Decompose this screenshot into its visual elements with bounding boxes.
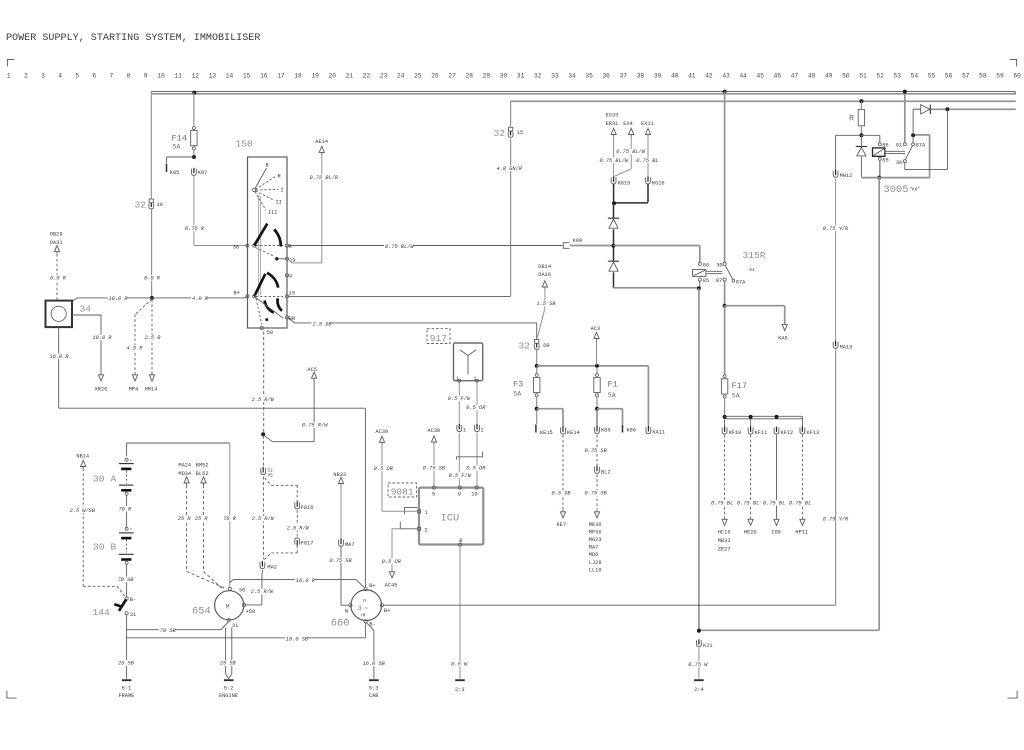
svg-text:86: 86 (703, 263, 709, 269)
svg-text:I: I (281, 188, 284, 194)
svg-text:AC3: AC3 (591, 326, 601, 332)
svg-text:2.5 R/W: 2.5 R/W (251, 589, 274, 595)
svg-text:2:4: 2:4 (694, 687, 704, 693)
svg-text:0.75 R: 0.75 R (185, 226, 205, 232)
svg-text:1.5 SB: 1.5 SB (537, 301, 557, 307)
svg-text:LL10: LL10 (589, 567, 602, 573)
svg-text:144: 144 (93, 607, 111, 618)
svg-text:KE7: KE7 (557, 522, 567, 528)
svg-text:315R: 315R (743, 250, 766, 261)
svg-text:4.8 R: 4.8 R (127, 346, 144, 352)
svg-text:48: 48 (808, 73, 816, 80)
svg-text:NB14: NB14 (76, 454, 89, 460)
svg-text:15: 15 (517, 130, 523, 136)
svg-text:AC38: AC38 (427, 428, 440, 434)
svg-text:20: 20 (329, 73, 337, 80)
svg-text:30: 30 (157, 202, 163, 208)
svg-text:AE14: AE14 (315, 139, 328, 145)
svg-text:F816: F816 (301, 505, 314, 511)
svg-text:ME36: ME36 (589, 522, 602, 528)
svg-text:6.0 R: 6.0 R (50, 276, 67, 282)
svg-text:MA7: MA7 (589, 545, 599, 551)
svg-text:ZE27: ZE27 (718, 547, 731, 553)
svg-text:K85: K85 (601, 428, 611, 434)
svg-text:16: 16 (260, 73, 268, 80)
svg-text:2: 2 (474, 377, 477, 382)
svg-text:16.0 SB: 16.0 SB (286, 636, 309, 642)
svg-text:2.5 SB: 2.5 SB (313, 321, 333, 327)
svg-text:36: 36 (602, 73, 610, 80)
svg-text:32: 32 (135, 200, 147, 211)
svg-text:KF12: KF12 (781, 430, 794, 436)
svg-text:0.75 BL: 0.75 BL (737, 501, 759, 507)
svg-text:10: 10 (471, 491, 477, 497)
svg-text:30: 30 (93, 542, 105, 553)
svg-text:0.75 SB: 0.75 SB (585, 448, 608, 454)
svg-text:2.5 R: 2.5 R (145, 335, 162, 341)
svg-text:MA24: MA24 (178, 463, 191, 469)
svg-text:MF36: MF36 (589, 529, 602, 535)
svg-text:21: 21 (346, 73, 354, 80)
svg-text:0.5 W: 0.5 W (451, 661, 468, 667)
svg-text:5A: 5A (513, 391, 521, 398)
svg-text:BM52: BM52 (196, 463, 209, 469)
svg-text:P: P (289, 274, 292, 280)
svg-text:R: R (849, 114, 854, 124)
svg-text:CAB: CAB (369, 693, 379, 699)
svg-text:87A: 87A (736, 279, 746, 285)
svg-text:XR20: XR20 (95, 387, 108, 393)
svg-text:KF10: KF10 (729, 430, 742, 436)
svg-text:NB33: NB33 (333, 472, 346, 478)
svg-text:HE20: HE20 (744, 530, 757, 536)
svg-text:5A: 5A (173, 144, 181, 151)
svg-text:31: 31 (130, 612, 136, 618)
svg-text:B+: B+ (369, 583, 375, 589)
svg-text:2: 2 (425, 528, 428, 534)
svg-text:39: 39 (654, 73, 662, 80)
svg-text:1: 1 (7, 73, 11, 80)
svg-text:51: 51 (859, 73, 867, 80)
svg-text:16.0 SB: 16.0 SB (363, 661, 386, 667)
svg-text:2: 2 (24, 73, 28, 80)
svg-text:0.75 W: 0.75 W (688, 662, 708, 668)
svg-text:12: 12 (192, 73, 200, 80)
svg-text:KA5: KA5 (778, 336, 788, 342)
svg-text:31: 31 (232, 623, 238, 629)
svg-text:15: 15 (243, 73, 251, 80)
svg-text:BL2: BL2 (601, 469, 611, 475)
svg-text:AC45: AC45 (385, 583, 398, 589)
svg-text:27: 27 (448, 73, 456, 80)
svg-text:6: 6 (92, 73, 96, 80)
svg-text:8: 8 (127, 73, 131, 80)
svg-text:+: + (130, 459, 133, 464)
svg-text:45: 45 (757, 73, 765, 80)
svg-text:40: 40 (671, 73, 679, 80)
svg-text:660: 660 (331, 618, 350, 630)
svg-text:30: 30 (716, 263, 722, 269)
svg-text:KG15: KG15 (618, 180, 631, 186)
svg-text:52: 52 (876, 73, 884, 80)
svg-text:F14: F14 (172, 134, 187, 144)
svg-text:85: 85 (882, 157, 888, 163)
svg-text:0.75 SB: 0.75 SB (329, 558, 352, 564)
svg-text:0.75 BL: 0.75 BL (789, 501, 811, 507)
svg-text:2.5 R/W: 2.5 R/W (252, 397, 275, 403)
svg-text:25 SB: 25 SB (220, 661, 237, 667)
svg-text:B+: B+ (233, 291, 239, 297)
svg-text:4: 4 (58, 73, 62, 80)
svg-text:15: 15 (289, 290, 295, 296)
svg-text:9081: 9081 (391, 486, 414, 497)
svg-text:2:3: 2:3 (455, 687, 465, 693)
svg-text:0.75 Y/R: 0.75 Y/R (823, 226, 849, 232)
svg-text:30: 30 (233, 245, 239, 251)
svg-text:∼: ∼ (364, 605, 368, 612)
svg-text:KE15: KE15 (540, 430, 553, 436)
svg-text:25: 25 (414, 73, 422, 80)
svg-text:60: 60 (1013, 73, 1021, 80)
svg-text:0.75 BL: 0.75 BL (636, 158, 658, 164)
svg-text:44: 44 (739, 73, 747, 80)
svg-text:KG16: KG16 (652, 180, 665, 186)
svg-text:25 R: 25 R (195, 516, 209, 522)
svg-text:0.75 BL/R: 0.75 BL/R (310, 175, 339, 181)
svg-text:2.5 R/W: 2.5 R/W (252, 516, 275, 522)
svg-text:0.75 BL/W: 0.75 BL/W (385, 244, 414, 250)
svg-text:MA2: MA2 (267, 565, 277, 571)
svg-text:0.75 SB: 0.75 SB (585, 491, 608, 497)
svg-text:A: A (111, 474, 117, 485)
svg-text:KF13: KF13 (806, 430, 819, 436)
svg-text:MD34: MD34 (178, 471, 191, 477)
svg-text:K09: K09 (573, 238, 583, 244)
svg-text:10.0 R: 10.0 R (109, 296, 129, 302)
svg-text:B+: B+ (384, 608, 390, 614)
svg-text:0.5 F/W: 0.5 F/W (448, 396, 471, 402)
svg-text:32: 32 (519, 341, 531, 352)
svg-text:10.0 R: 10.0 R (93, 335, 113, 341)
svg-text:K07: K07 (198, 170, 208, 176)
svg-text:22: 22 (363, 73, 371, 80)
svg-text:FRAME: FRAME (118, 693, 134, 699)
svg-text:50: 50 (842, 73, 850, 80)
svg-text:0.75 BL: 0.75 BL (711, 501, 733, 507)
svg-text:KE14: KE14 (567, 430, 580, 436)
svg-text:KA11: KA11 (652, 430, 665, 436)
svg-text:6.0 R: 6.0 R (144, 276, 161, 282)
svg-text:0.75 BL/W: 0.75 BL/W (600, 158, 629, 164)
svg-text:23: 23 (380, 73, 388, 80)
svg-text:K05: K05 (170, 170, 180, 176)
svg-text:3: 3 (41, 73, 45, 80)
svg-text:34: 34 (568, 73, 576, 80)
svg-text:F817: F817 (301, 540, 314, 546)
svg-text:33: 33 (551, 73, 559, 80)
svg-text:19: 19 (311, 73, 319, 80)
svg-text:F1: F1 (608, 380, 618, 390)
svg-text:ENGINE: ENGINE (219, 693, 238, 699)
svg-text:0.5 OR: 0.5 OR (374, 466, 394, 472)
svg-text:30: 30 (500, 73, 508, 80)
svg-text:54: 54 (911, 73, 919, 80)
svg-text:16.0 R: 16.0 R (50, 354, 70, 360)
svg-text:0.75 BL/W: 0.75 BL/W (616, 149, 645, 155)
svg-text:MB33: MB33 (718, 538, 731, 544)
svg-text:85: 85 (703, 278, 709, 284)
svg-text:30: 30 (239, 587, 245, 593)
svg-text:150: 150 (236, 139, 254, 150)
svg-text:25 SB: 25 SB (118, 661, 135, 667)
svg-text:MG23: MG23 (589, 537, 602, 543)
svg-text:F3: F3 (513, 380, 523, 390)
svg-text:K4: K4 (750, 268, 756, 273)
svg-text:AC39: AC39 (375, 429, 388, 435)
svg-text:ER31: ER31 (606, 121, 619, 127)
svg-text:17: 17 (277, 73, 285, 80)
svg-text:50: 50 (267, 330, 273, 336)
svg-text:26: 26 (431, 73, 439, 80)
svg-text:HM14: HM14 (145, 387, 158, 393)
svg-text:ES33: ES33 (606, 113, 619, 119)
svg-text:0.5 OR: 0.5 OR (466, 405, 486, 411)
svg-text:MH12: MH12 (840, 173, 853, 179)
svg-text:42: 42 (705, 73, 713, 80)
svg-text:38: 38 (637, 73, 645, 80)
svg-text:2: 2 (481, 428, 484, 434)
svg-text:9: 9 (458, 491, 461, 497)
svg-text:11: 11 (174, 73, 182, 80)
svg-text:V5: V5 (268, 473, 274, 478)
svg-text:70 R: 70 R (223, 516, 237, 522)
svg-text:46: 46 (774, 73, 782, 80)
svg-text:OA31: OA31 (50, 240, 63, 246)
svg-text:DB14: DB14 (538, 264, 551, 270)
svg-text:OB29: OB29 (50, 232, 63, 238)
svg-text:55: 55 (928, 73, 936, 80)
svg-text:ICU: ICU (441, 513, 460, 525)
svg-text:58: 58 (979, 73, 987, 80)
svg-text:1: 1 (425, 510, 428, 516)
svg-text:1: 1 (463, 428, 466, 434)
svg-text:-: - (130, 562, 133, 567)
svg-text:59: 59 (996, 73, 1004, 80)
svg-text:“K6”: “K6” (910, 188, 921, 193)
svg-text:KF11: KF11 (755, 430, 768, 436)
svg-text:AC5: AC5 (307, 367, 317, 373)
svg-text:32: 32 (494, 128, 506, 139)
svg-text:31: 31 (517, 73, 525, 80)
svg-text:7: 7 (110, 73, 114, 80)
svg-text:70 R: 70 R (119, 506, 133, 512)
svg-text:DA16: DA16 (538, 272, 551, 278)
svg-text:14: 14 (226, 73, 234, 80)
svg-text:III: III (268, 210, 278, 216)
svg-text:5:3: 5:3 (369, 685, 379, 691)
svg-text:5A: 5A (732, 393, 740, 400)
svg-text:ID9: ID9 (771, 530, 781, 536)
svg-text:LJ28: LJ28 (589, 560, 602, 566)
svg-text:EX4: EX4 (623, 121, 633, 127)
svg-text:87: 87 (716, 278, 722, 284)
svg-text:M: M (226, 604, 230, 611)
svg-text:0.5 F/W: 0.5 F/W (449, 473, 472, 479)
svg-text:B: B (111, 542, 117, 553)
svg-text:POWER SUPPLY, STARTING SYSTEM,: POWER SUPPLY, STARTING SYSTEM, IMMOBILIS… (6, 33, 260, 44)
svg-text:4.0 R: 4.0 R (192, 296, 209, 302)
svg-text:18: 18 (294, 73, 302, 80)
svg-text:HP11: HP11 (795, 530, 808, 536)
svg-text:HC16: HC16 (718, 530, 731, 536)
svg-text:57: 57 (962, 73, 970, 80)
svg-text:28: 28 (466, 73, 474, 80)
svg-text:43: 43 (722, 73, 730, 80)
svg-text:917: 917 (430, 333, 447, 344)
svg-text:30: 30 (896, 160, 902, 166)
svg-text:-: - (130, 493, 133, 498)
svg-text:24: 24 (397, 73, 405, 80)
svg-text:1: 1 (456, 377, 459, 382)
svg-text:16.0 R: 16.0 R (296, 578, 316, 584)
svg-text:47: 47 (791, 73, 799, 80)
svg-text:35: 35 (585, 73, 593, 80)
svg-text:0.5 SB: 0.5 SB (552, 491, 572, 497)
svg-text:0.75 R/W: 0.75 R/W (302, 423, 328, 429)
svg-text:49: 49 (825, 73, 833, 80)
svg-text:5: 5 (432, 491, 435, 497)
svg-text:0.75 SB: 0.75 SB (423, 466, 446, 472)
svg-text:654: 654 (192, 606, 211, 618)
svg-text:MD6: MD6 (589, 552, 599, 558)
svg-text:+50: +50 (246, 609, 256, 615)
svg-text:5: 5 (75, 73, 79, 80)
svg-text:+M: +M (360, 613, 366, 618)
svg-text:34: 34 (80, 304, 92, 315)
svg-text:0.75 BL: 0.75 BL (763, 501, 785, 507)
svg-text:MA13: MA13 (840, 344, 853, 350)
svg-text:5:2: 5:2 (224, 685, 234, 691)
svg-text:41: 41 (688, 73, 696, 80)
svg-text:2.5 W/SB: 2.5 W/SB (70, 508, 96, 514)
svg-text:5:1: 5:1 (122, 685, 132, 691)
svg-text:DR: DR (543, 343, 550, 349)
svg-text:2.5 R/W: 2.5 R/W (287, 526, 310, 532)
svg-text:3: 3 (358, 605, 362, 612)
svg-text:EX11: EX11 (641, 121, 654, 127)
svg-text:56: 56 (945, 73, 953, 80)
svg-text:81: 81 (896, 142, 902, 148)
svg-text:13: 13 (209, 73, 217, 80)
svg-text:KJ1: KJ1 (703, 643, 713, 649)
svg-text:87A: 87A (916, 143, 926, 149)
svg-text:4.0 GN/R: 4.0 GN/R (497, 166, 523, 172)
svg-text:0.5 OR: 0.5 OR (466, 466, 486, 472)
svg-text:0.5 OR: 0.5 OR (382, 559, 402, 565)
svg-text:MA7: MA7 (345, 542, 355, 548)
svg-text:25 R: 25 R (178, 516, 192, 522)
svg-text:53: 53 (894, 73, 902, 80)
svg-text:II: II (276, 200, 282, 206)
svg-text:10: 10 (157, 73, 165, 80)
svg-text:37: 37 (620, 73, 628, 80)
svg-text:BL52: BL52 (196, 471, 209, 477)
svg-text:70 SB: 70 SB (160, 628, 177, 634)
svg-text:F17: F17 (732, 381, 747, 391)
svg-text:MP4: MP4 (129, 387, 139, 393)
svg-text:O: O (363, 599, 366, 604)
svg-text:B: B (266, 163, 269, 169)
svg-text:9: 9 (144, 73, 148, 80)
svg-text:+: + (130, 528, 133, 533)
svg-text:B-: B- (130, 597, 136, 603)
svg-text:70 SB: 70 SB (118, 577, 135, 583)
svg-text:32: 32 (534, 73, 542, 80)
svg-text:29: 29 (483, 73, 491, 80)
svg-text:K86: K86 (627, 428, 637, 434)
svg-text:30: 30 (93, 474, 105, 485)
svg-text:3005: 3005 (884, 184, 909, 196)
svg-text:5A: 5A (608, 392, 616, 399)
